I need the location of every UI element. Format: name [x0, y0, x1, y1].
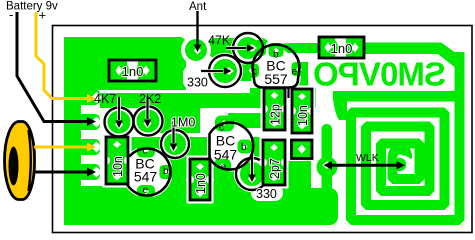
copper main pour	[103, 137, 285, 225]
wire antenna	[194, 11, 202, 55]
copper BC557 e stub down	[294, 62, 308, 89]
svg-text:e: e	[292, 67, 298, 78]
transistor BC547 b	[210, 123, 254, 174]
pads BC547a c,b,e	[137, 144, 155, 158]
copper trace 1n0TR to spiral	[364, 43, 465, 68]
clearance BC557 body	[251, 41, 302, 88]
resistor 4K7	[94, 92, 134, 137]
pad 1M0 center	[164, 133, 186, 155]
clearance text 330 bottom	[251, 185, 283, 201]
svg-text:47K: 47K	[208, 34, 231, 48]
svg-text:1n0: 1n0	[194, 173, 208, 194]
svg-text:e: e	[221, 162, 227, 173]
copper column to WLK pad	[322, 124, 333, 192]
svg-text:1n0: 1n0	[122, 64, 144, 79]
copper left column	[64, 37, 81, 225]
microphone body	[5, 122, 35, 200]
wire link WLK	[322, 161, 331, 169]
pad 47K center	[237, 37, 259, 59]
copper band R1 under BC557	[250, 88, 316, 96]
copper pad tab row2	[64, 114, 100, 130]
wire mic yellow	[34, 146, 88, 149]
svg-text:1n0: 1n0	[331, 41, 353, 56]
clearance 330-top	[207, 53, 243, 89]
clearance ring Ant pad	[181, 35, 211, 65]
capacitor 1n0 bottom	[186, 159, 214, 200]
wire battery plus	[36, 12, 88, 99]
copper bottom pour left	[64, 186, 103, 225]
capacitor 12p	[260, 88, 289, 130]
copper 47K band	[209, 38, 268, 58]
svg-text:b: b	[241, 142, 247, 153]
clearance 4K7	[103, 106, 136, 139]
svg-text:557: 557	[264, 71, 288, 87]
svg-text:1M0: 1M0	[171, 116, 195, 130]
svg-text:330: 330	[256, 187, 277, 201]
clearance 47K	[231, 31, 265, 65]
copper top-left blob band	[64, 37, 187, 56]
copper top-left blob body	[64, 52, 186, 90]
svg-text:+: +	[39, 8, 47, 23]
pad Ant	[185, 39, 207, 61]
svg-text:2K2: 2K2	[139, 92, 161, 106]
pad 47K right	[253, 40, 266, 56]
clearance BC547a body	[121, 146, 173, 198]
svg-text:330: 330	[187, 76, 208, 90]
svg-text:Battery 9v: Battery 9v	[6, 1, 58, 13]
svg-text:10n: 10n	[296, 105, 310, 126]
pad WLK left	[317, 157, 338, 178]
pad 330-bottom center	[240, 162, 264, 186]
svg-text:b: b	[163, 166, 169, 177]
svg-text:-: -	[9, 7, 13, 22]
svg-text:WLK: WLK	[356, 152, 379, 164]
svg-text:2p7: 2p7	[268, 158, 282, 179]
clearance 2K2	[132, 105, 165, 138]
svg-text:SM0VPO: SM0VPO	[313, 56, 446, 93]
clearance BC547b body	[207, 120, 253, 172]
svg-text:c: c	[252, 67, 257, 78]
clearance 1M0	[159, 128, 191, 160]
board outline	[53, 26, 473, 233]
svg-text:547: 547	[214, 147, 238, 163]
svg-text:547: 547	[134, 169, 158, 185]
wire mic black	[35, 171, 88, 174]
wire battery minus	[17, 12, 88, 122]
capacitor 2p7	[259, 140, 289, 185]
copper bottom right pour	[284, 188, 338, 225]
copper band A under letters	[333, 91, 464, 102]
svg-text:12p: 12p	[269, 104, 283, 125]
capacitor 10n left	[102, 137, 132, 184]
copper pad tab row1	[64, 89, 100, 105]
copper block R2	[155, 108, 200, 133]
clearance margin 10n left	[103, 134, 132, 188]
svg-text:4K7: 4K7	[94, 92, 116, 106]
copper right mid pour	[284, 161, 311, 225]
resistor 1M0	[161, 116, 195, 159]
copper connector band A to spiral	[333, 91, 347, 120]
pad spiral center	[394, 156, 412, 174]
clearance margin 2p7	[260, 137, 289, 189]
capacitor 1n0 top-left	[109, 60, 156, 81]
pads BC547b c,b,e	[215, 116, 234, 132]
spiral inductor L1	[351, 52, 460, 220]
pads BC557 b,c,e	[269, 43, 284, 57]
clearance diamonds at wire pads	[91, 92, 102, 103]
resistor 330 bottom	[236, 152, 277, 201]
copper pad tab row4	[64, 164, 100, 180]
copper pad tab row3	[64, 139, 100, 155]
copper band R1	[100, 93, 316, 108]
pad 330-top center	[213, 59, 237, 83]
pad 4K7 center	[108, 111, 131, 134]
resistor 2K2	[134, 92, 163, 136]
resistor 330 top	[187, 55, 241, 90]
white diamonds on transistor pads	[143, 48, 302, 195]
clearance margin 1n0 bottom	[187, 156, 214, 204]
clearance margin 12p	[261, 85, 289, 134]
capacitor 1n0 top-right	[318, 37, 365, 58]
clearance margin 10n right	[289, 86, 316, 137]
capacitor 10n right	[288, 89, 316, 133]
pad 2K2 center	[137, 110, 160, 133]
copper 330-top stub	[236, 61, 254, 81]
transistor BC547 a	[124, 146, 171, 197]
svg-text:e: e	[143, 185, 149, 196]
clearance 330-bottom	[234, 156, 270, 192]
svg-text:10n: 10n	[111, 156, 125, 177]
trace BC557 b to 1n0TR	[276, 43, 320, 53]
clearance text 330 top	[183, 65, 212, 90]
wire pad square	[292, 140, 313, 159]
resistor 47K	[208, 33, 263, 63]
copper trace 12p to BC547b c-pad	[228, 113, 266, 128]
transistor BC557	[252, 44, 300, 98]
